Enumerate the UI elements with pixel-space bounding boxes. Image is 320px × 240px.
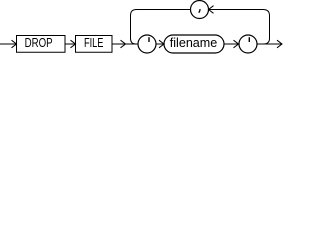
svg-text:FILE: FILE (84, 35, 104, 50)
svg-text:filename: filename (170, 35, 218, 50)
svg-text:DROP: DROP (25, 35, 53, 50)
